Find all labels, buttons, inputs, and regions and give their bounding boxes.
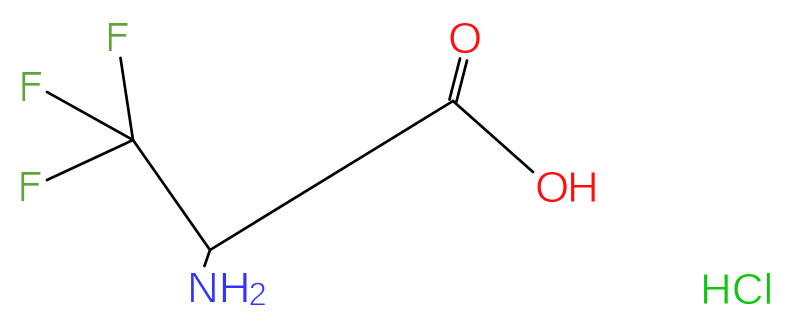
svg-text:NH: NH xyxy=(187,264,251,313)
svg-text:H: H xyxy=(567,163,599,212)
svg-text:O: O xyxy=(448,14,482,63)
svg-text:2: 2 xyxy=(249,276,267,313)
svg-text:HCl: HCl xyxy=(700,265,773,314)
svg-text:O: O xyxy=(535,163,569,212)
